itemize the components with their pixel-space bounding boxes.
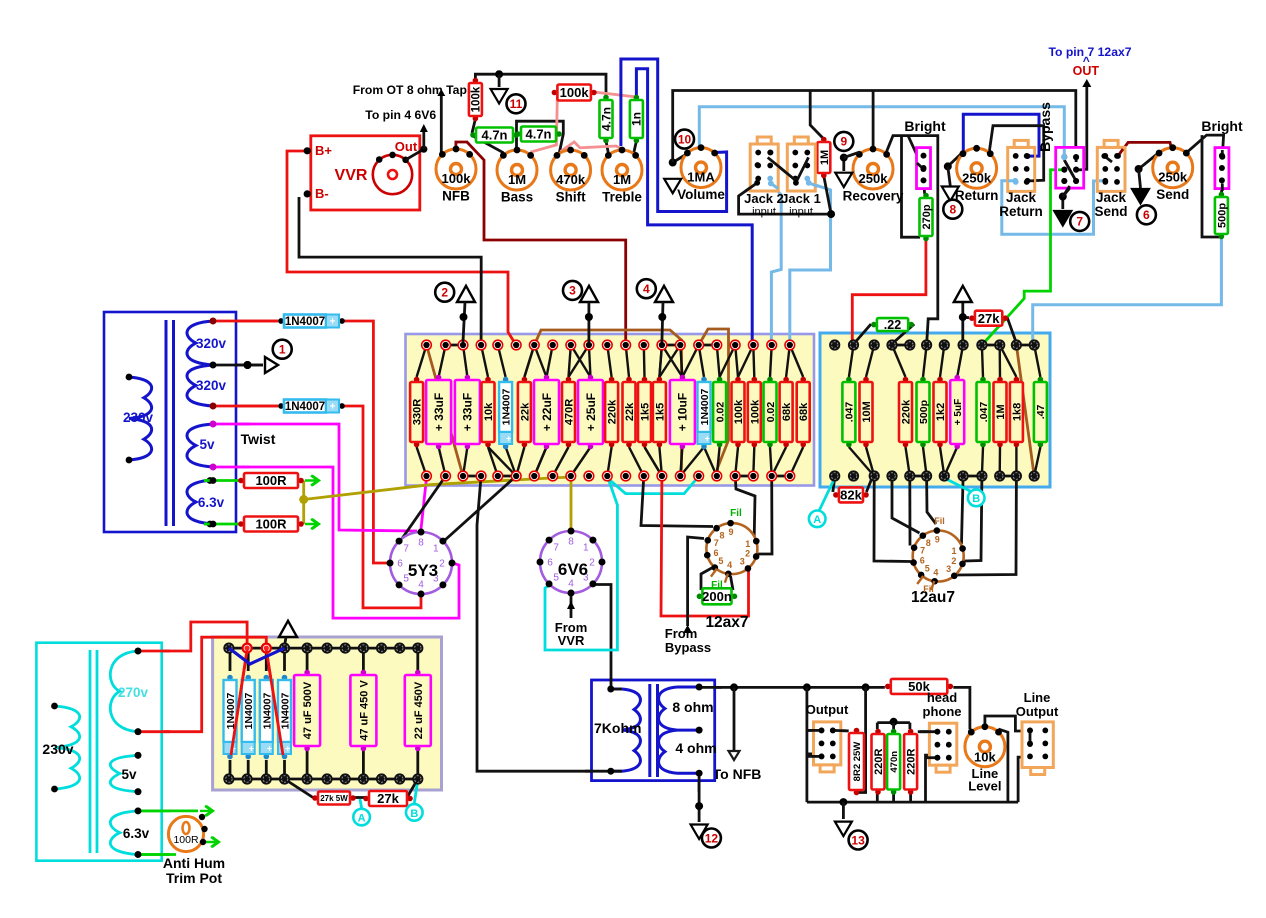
svg-text:100k: 100k <box>471 86 483 112</box>
svg-text:12ax7: 12ax7 <box>705 614 748 631</box>
svg-text:.47: .47 <box>1035 405 1047 420</box>
svg-text:13: 13 <box>851 833 865 847</box>
svg-text:Output: Output <box>806 702 849 717</box>
svg-text:9: 9 <box>728 527 733 537</box>
svg-text:4 ohm: 4 ohm <box>675 740 716 756</box>
svg-text:0.02: 0.02 <box>714 402 726 423</box>
svg-text:1: 1 <box>745 539 750 549</box>
svg-text:100R: 100R <box>173 834 199 846</box>
svg-text:6: 6 <box>1143 208 1150 222</box>
svg-text:Fil: Fil <box>934 516 945 526</box>
svg-text:1N4007: 1N4007 <box>501 388 513 425</box>
svg-text:82k: 82k <box>840 488 862 503</box>
svg-text:A: A <box>813 514 821 526</box>
svg-text:+: + <box>285 744 290 754</box>
svg-text:1N4007: 1N4007 <box>243 692 255 729</box>
svg-text:3: 3 <box>740 556 745 566</box>
svg-text:500p: 500p <box>918 400 930 424</box>
svg-text:VVR: VVR <box>558 633 585 648</box>
svg-text:Bass: Bass <box>501 190 533 205</box>
svg-text:100k: 100k <box>749 399 761 424</box>
svg-text:68k: 68k <box>781 402 793 421</box>
svg-text:1k8: 1k8 <box>1011 403 1023 421</box>
svg-text:1MA: 1MA <box>687 170 715 185</box>
svg-text:To pin 4 6V6: To pin 4 6V6 <box>365 108 436 122</box>
svg-text:7: 7 <box>1076 215 1083 229</box>
svg-text:Jack 1: Jack 1 <box>781 191 821 206</box>
svg-text:220k: 220k <box>900 399 912 424</box>
svg-text:7: 7 <box>553 543 559 554</box>
svg-text:250k: 250k <box>1158 170 1188 185</box>
svg-text:Volume: Volume <box>677 187 725 202</box>
svg-text:8R2 25W: 8R2 25W <box>852 742 863 782</box>
svg-text:22k: 22k <box>519 402 531 421</box>
svg-text:Anti Hum: Anti Hum <box>163 855 225 871</box>
svg-text:22 uF 450V: 22 uF 450V <box>413 681 425 739</box>
svg-text:2: 2 <box>745 549 750 559</box>
svg-text:100R: 100R <box>255 473 287 488</box>
svg-text:8 ohm: 8 ohm <box>672 699 713 715</box>
svg-text:100R: 100R <box>255 517 287 532</box>
svg-text:10: 10 <box>678 132 692 146</box>
svg-text:Line: Line <box>1024 690 1051 705</box>
svg-text:1k5: 1k5 <box>639 403 651 421</box>
svg-text:27k: 27k <box>377 791 399 806</box>
svg-text:11: 11 <box>510 97 523 111</box>
svg-text:4: 4 <box>568 579 574 590</box>
svg-text:0.02: 0.02 <box>765 402 777 423</box>
svg-text:230v: 230v <box>123 410 154 425</box>
svg-text:5v: 5v <box>121 767 137 782</box>
svg-text:+: + <box>249 744 254 754</box>
svg-text:1M: 1M <box>613 172 631 187</box>
svg-text:phone: phone <box>923 704 962 719</box>
svg-text:To NFB: To NFB <box>713 766 762 782</box>
svg-text:250k: 250k <box>962 170 992 185</box>
svg-text:Bypass: Bypass <box>665 640 711 655</box>
svg-text:.22: .22 <box>884 318 901 332</box>
svg-text:Fil: Fil <box>923 584 934 594</box>
svg-text:B: B <box>410 808 418 820</box>
svg-text:Out: Out <box>395 139 418 154</box>
svg-text:+: + <box>330 317 336 328</box>
svg-text:3: 3 <box>946 564 951 574</box>
svg-text:7Kohm: 7Kohm <box>594 720 641 736</box>
svg-text:+ 5uF: + 5uF <box>953 399 964 425</box>
svg-text:To pin 7 12ax7: To pin 7 12ax7 <box>1048 45 1131 59</box>
svg-text:27k: 27k <box>978 311 1000 326</box>
svg-text:+: + <box>267 744 272 754</box>
svg-text:1k2: 1k2 <box>935 403 947 421</box>
svg-text:.047: .047 <box>844 402 856 423</box>
svg-text:1M: 1M <box>508 172 526 187</box>
svg-text:Jack: Jack <box>1096 190 1127 205</box>
svg-text:+ 10uF: + 10uF <box>676 393 690 431</box>
svg-text:1M: 1M <box>819 150 831 165</box>
svg-text:250k: 250k <box>859 171 889 186</box>
svg-text:320v: 320v <box>196 336 227 351</box>
svg-text:input: input <box>752 206 776 218</box>
svg-text:Level: Level <box>968 779 1001 794</box>
svg-text:Send: Send <box>1156 187 1189 202</box>
svg-text:220R: 220R <box>873 749 885 775</box>
svg-text:5: 5 <box>925 563 930 573</box>
svg-text:6.3v: 6.3v <box>123 826 150 841</box>
svg-text:22k: 22k <box>624 402 636 421</box>
svg-text:1N4007: 1N4007 <box>261 692 273 729</box>
svg-text:1M: 1M <box>995 404 1007 419</box>
svg-text:9: 9 <box>840 135 847 149</box>
svg-text:4: 4 <box>727 560 732 570</box>
svg-text:4.7n: 4.7n <box>481 128 507 143</box>
svg-text:100k: 100k <box>442 171 472 186</box>
svg-text:Bright: Bright <box>904 118 946 134</box>
svg-text:7: 7 <box>920 546 925 556</box>
svg-text:4.7n: 4.7n <box>599 107 613 131</box>
svg-text:320v: 320v <box>196 378 227 393</box>
svg-text:4.7n: 4.7n <box>525 127 551 142</box>
svg-text:1k5: 1k5 <box>654 403 666 421</box>
svg-text:VVR: VVR <box>335 167 368 184</box>
svg-text:B+: B+ <box>315 143 332 158</box>
svg-text:B-: B- <box>315 186 329 201</box>
svg-text:Bypass: Bypass <box>1037 102 1053 152</box>
svg-text:1: 1 <box>951 546 956 556</box>
svg-text:47 uF 450 V: 47 uF 450 V <box>358 680 370 741</box>
svg-text:+: + <box>705 434 710 444</box>
svg-text:10k: 10k <box>483 402 495 421</box>
svg-text:220R: 220R <box>906 749 918 775</box>
svg-text:8: 8 <box>418 538 424 549</box>
svg-text:500p: 500p <box>1216 203 1228 228</box>
svg-text:4: 4 <box>643 282 650 296</box>
svg-text:1N4007: 1N4007 <box>285 316 325 328</box>
svg-text:5Y3: 5Y3 <box>408 561 438 580</box>
svg-text:From OT 8 ohm Tap: From OT 8 ohm Tap <box>353 83 467 97</box>
svg-text:1N4007: 1N4007 <box>285 401 325 413</box>
svg-text:input: input <box>789 206 813 218</box>
svg-text:+: + <box>506 434 511 444</box>
svg-text:7: 7 <box>403 544 409 555</box>
svg-text:470n: 470n <box>889 751 900 773</box>
svg-text:From: From <box>665 626 698 641</box>
svg-text:27k 5W: 27k 5W <box>320 794 348 803</box>
svg-text:Fil: Fil <box>711 580 723 591</box>
svg-text:OUT: OUT <box>1073 64 1100 78</box>
svg-text:B: B <box>972 493 980 505</box>
svg-text:Send: Send <box>1094 204 1127 219</box>
svg-text:1N4007: 1N4007 <box>280 692 292 729</box>
svg-text:4: 4 <box>418 580 424 591</box>
svg-text:470k: 470k <box>556 172 586 187</box>
svg-text:1: 1 <box>279 343 286 357</box>
svg-text:8: 8 <box>949 203 956 217</box>
svg-text:100k: 100k <box>560 85 590 100</box>
svg-text:7: 7 <box>714 538 719 548</box>
svg-text:5: 5 <box>718 556 723 566</box>
svg-text:+: + <box>330 402 336 413</box>
svg-text:3: 3 <box>569 284 576 298</box>
svg-text:2: 2 <box>589 558 595 569</box>
svg-text:2: 2 <box>441 286 448 300</box>
svg-text:Trim Pot: Trim Pot <box>166 870 222 886</box>
svg-text:Jack: Jack <box>1006 190 1037 205</box>
svg-text:1N4007: 1N4007 <box>699 388 711 425</box>
svg-text:2: 2 <box>439 559 445 570</box>
svg-text:4: 4 <box>933 567 938 577</box>
svg-text:+ 33uF: + 33uF <box>461 393 475 431</box>
svg-text:200n: 200n <box>702 589 732 604</box>
svg-text:6V6: 6V6 <box>558 560 588 579</box>
svg-text:NFB: NFB <box>442 189 470 204</box>
svg-text:head: head <box>927 690 957 705</box>
svg-text:230v: 230v <box>42 741 73 757</box>
svg-text:.047: .047 <box>978 402 990 423</box>
svg-text:270p: 270p <box>921 204 933 229</box>
svg-text:220k: 220k <box>607 399 619 424</box>
svg-text:Fil: Fil <box>730 508 742 519</box>
svg-text:8: 8 <box>568 537 574 548</box>
svg-text:330R: 330R <box>412 399 424 425</box>
svg-text:8: 8 <box>719 530 724 540</box>
svg-text:5v: 5v <box>199 437 215 452</box>
svg-text:6: 6 <box>547 558 553 569</box>
svg-text:6: 6 <box>397 559 403 570</box>
svg-text:A: A <box>358 813 366 825</box>
svg-text:10k: 10k <box>974 750 996 765</box>
svg-text:1n: 1n <box>630 112 644 126</box>
svg-text:Treble: Treble <box>602 190 642 205</box>
svg-text:2: 2 <box>951 556 956 566</box>
svg-text:Jack 2: Jack 2 <box>744 191 784 206</box>
svg-text:1: 1 <box>583 543 589 554</box>
svg-text:8: 8 <box>926 538 931 548</box>
svg-text:9: 9 <box>935 535 940 545</box>
svg-text:100k: 100k <box>733 399 745 424</box>
svg-text:+ 33uF: + 33uF <box>432 393 446 431</box>
svg-text:270v: 270v <box>118 685 149 700</box>
svg-text:68k: 68k <box>798 402 810 421</box>
svg-text:Shift: Shift <box>556 190 586 205</box>
svg-text:6.3v: 6.3v <box>198 495 225 510</box>
svg-text:Recovery: Recovery <box>843 189 904 204</box>
svg-text:10M: 10M <box>861 401 873 422</box>
svg-text:Return: Return <box>955 188 999 203</box>
svg-text:Bright: Bright <box>1201 118 1243 134</box>
svg-text:12: 12 <box>705 831 719 845</box>
svg-text:+ 25uF: + 25uF <box>584 393 598 431</box>
svg-text:1: 1 <box>433 544 439 555</box>
svg-text:Twist: Twist <box>241 431 276 447</box>
svg-text:+ 22uF: + 22uF <box>540 393 554 431</box>
svg-text:Output: Output <box>1016 704 1059 719</box>
svg-text:Return: Return <box>999 204 1043 219</box>
svg-text:47 uF 500V: 47 uF 500V <box>302 681 314 739</box>
svg-text:470R: 470R <box>563 399 575 425</box>
